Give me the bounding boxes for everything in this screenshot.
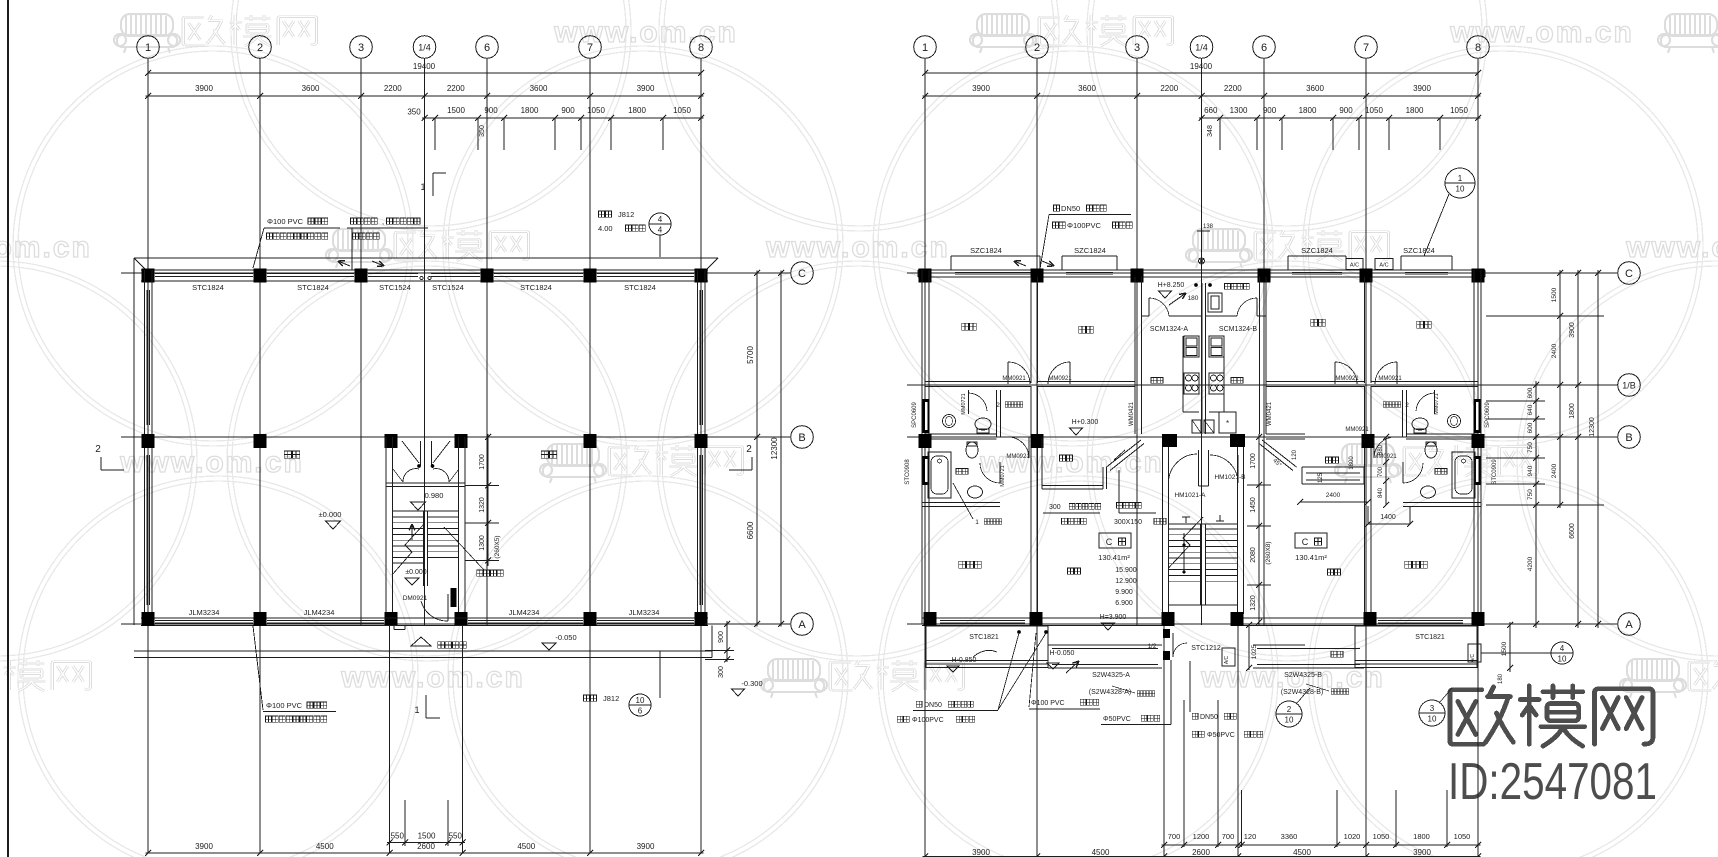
svg-text:S2W4325-A: S2W4325-A	[1092, 672, 1130, 679]
left plan section mark 1 (top)	[432, 173, 434, 196]
left plan grid line 8	[700, 58, 702, 853]
right plan kitchen sink B	[1209, 336, 1224, 357]
right plan living label 客厅 (right)	[1328, 569, 1334, 575]
svg-text:±0.000: ±0.000	[405, 569, 426, 576]
grid bubble 6 (left)	[476, 36, 499, 59]
right plan bath door MM0721 (left)	[968, 390, 970, 414]
svg-text:2: 2	[1287, 705, 1292, 714]
svg-text:3600: 3600	[1306, 84, 1324, 93]
svg-text:S2W4325-B: S2W4325-B	[1284, 672, 1322, 679]
right plan top wall windows	[955, 271, 1036, 273]
svg-text:3600: 3600	[302, 84, 320, 93]
svg-text:SZC1824: SZC1824	[970, 246, 1002, 255]
svg-text:1500: 1500	[447, 106, 465, 115]
svg-text:5700: 5700	[746, 346, 755, 364]
column grid2-B	[254, 434, 267, 448]
right plan kitchen room labels	[1151, 378, 1157, 384]
svg-text:(260X5): (260X5)	[494, 535, 501, 558]
svg-text:C: C	[1106, 537, 1113, 547]
grid bubble 1/4 (right)	[1190, 36, 1213, 59]
right plan balcony window STC1821 (left)	[940, 620, 1025, 622]
left plan grid line 6	[486, 58, 488, 625]
right plan bedroom doors MM0921 at 1/B	[1007, 362, 1009, 384]
right plan appliance boxes	[1192, 420, 1201, 433]
right plan bedroom divider wall grid7	[1364, 277, 1366, 383]
svg-text:125: 125	[1318, 472, 1324, 483]
right plan stair extension lines	[1163, 625, 1165, 856]
right plan dimension row 3900/3600/2200/2200/3600/3900	[923, 95, 1481, 97]
right plan stair flight	[1169, 523, 1238, 525]
svg-text:www.om.cn: www.om.cn	[979, 446, 1164, 479]
right plan detail bubble 1/10 (top)	[1445, 168, 1475, 198]
svg-text:STC1524: STC1524	[432, 283, 464, 292]
right plan dim 1025	[1248, 625, 1250, 670]
left plan grid line 7	[589, 58, 591, 853]
right plan master bath (right unit)	[1452, 452, 1475, 498]
svg-text:Φ50PVC: Φ50PVC	[1103, 716, 1131, 723]
right plan master bath toilet (left)	[966, 442, 978, 458]
grid bubble B (right)	[1618, 426, 1641, 449]
svg-text:3900: 3900	[637, 842, 655, 851]
right plan dining label 餐厅 (right)	[1326, 457, 1332, 463]
svg-text:15.900: 15.900	[1115, 567, 1137, 574]
svg-text:JLM4234: JLM4234	[304, 608, 335, 617]
svg-text:MM0921: MM0921	[1048, 376, 1072, 382]
svg-text:1320: 1320	[1250, 595, 1257, 611]
column stairL-B	[385, 434, 398, 448]
svg-text:6: 6	[638, 707, 643, 716]
right plan grid line 1/4	[1201, 58, 1203, 625]
svg-text:700: 700	[1168, 832, 1181, 841]
right plan grid line B	[907, 436, 1618, 438]
svg-text:2400: 2400	[1551, 463, 1558, 478]
right plan bedroom divider wall grid2	[1030, 277, 1032, 383]
right plan living label 客厅 (left)	[1068, 568, 1074, 574]
svg-text:A/C: A/C	[1350, 263, 1359, 269]
svg-text:8: 8	[1475, 42, 1481, 54]
right plan bottom dimension row 3900/4500/2600/4500/3900	[923, 856, 1481, 857]
svg-text:2: 2	[257, 42, 263, 54]
right plan label 生活阳台	[1225, 284, 1231, 290]
svg-text:1/4: 1/4	[418, 43, 431, 53]
svg-text:,: ,	[382, 217, 384, 226]
svg-text:B: B	[1625, 432, 1632, 444]
right plan overall dimension 19400	[925, 72, 1478, 74]
left plan note 西南J812 with bubble 4/4 (top)	[599, 211, 605, 217]
svg-text:SZC1824: SZC1824	[1074, 246, 1106, 255]
svg-text:1800: 1800	[1299, 106, 1317, 115]
right plan south wall	[922, 617, 1163, 619]
svg-text:6600: 6600	[746, 521, 755, 539]
svg-text:3900: 3900	[1413, 84, 1431, 93]
svg-text:www.om.cn: www.om.cn	[765, 231, 950, 264]
svg-text:(260X8): (260X8)	[1265, 541, 1272, 564]
right plan A/C box (middle)	[1222, 648, 1235, 666]
svg-text:A/C: A/C	[1224, 655, 1230, 664]
right plan bottom dimension row 700/1200/700/120/3360/1020/1050/1800/1050	[1162, 844, 1481, 846]
right plan kitchen counters	[1182, 336, 1184, 412]
right plan hall door arc (right unit)	[1373, 437, 1375, 458]
svg-text:2200: 2200	[1224, 84, 1242, 93]
svg-text:SCM1324-B: SCM1324-B	[1219, 326, 1257, 333]
right plan living balcony (left unit)	[1048, 644, 1162, 646]
column grid1-B	[142, 434, 155, 448]
svg-text:2400: 2400	[1551, 343, 1558, 358]
svg-text:4500: 4500	[517, 842, 535, 851]
column stairR-A	[455, 612, 468, 626]
svg-text:900: 900	[1339, 106, 1353, 115]
column stairL-A (right)	[1162, 612, 1175, 626]
right plan C型 box (right unit)	[1295, 533, 1327, 548]
svg-text:0.980: 0.980	[425, 491, 444, 500]
room label 卧室 (bed3)	[1311, 319, 1318, 326]
left plan entrance porch	[134, 650, 712, 652]
svg-text:1300: 1300	[1230, 106, 1248, 115]
column grid2-A (right)	[1030, 612, 1043, 626]
right plan stair entry doors HM1021	[1198, 450, 1200, 486]
column grid2-C	[254, 269, 267, 283]
right plan wall at grid 1/B	[925, 381, 1031, 383]
right plan balcony (right unit master)	[1355, 625, 1477, 627]
right plan A/C platforms (top)	[1346, 259, 1363, 270]
svg-text:2400: 2400	[1326, 492, 1341, 499]
left plan stair wall extension lines	[389, 625, 391, 853]
right plan detail bubble 4/10	[1551, 642, 1573, 664]
svg-text:3: 3	[1430, 704, 1435, 713]
svg-text:600: 600	[1527, 387, 1534, 398]
right plan stair note 砼制踏步	[1117, 503, 1123, 509]
grid bubble 7 (left)	[579, 36, 602, 59]
right plan grid line C	[907, 272, 1618, 274]
svg-text:H+0.300: H+0.300	[1072, 419, 1099, 426]
left plan stair note 砼制踏步	[477, 570, 483, 576]
svg-text:12.900: 12.900	[1115, 578, 1137, 585]
left plan west exterior wall	[144, 270, 146, 624]
room label 商铺 (east shop)	[541, 451, 548, 458]
column grid7-B	[584, 434, 597, 448]
right plan stair dimension chain	[1258, 434, 1260, 625]
right plan right-side extension lines	[1486, 272, 1604, 274]
svg-text:640: 640	[1527, 404, 1534, 415]
svg-text:3900: 3900	[195, 84, 213, 93]
svg-text:1050: 1050	[1373, 832, 1390, 841]
left plan section mark 1 (bottom)	[425, 695, 427, 718]
svg-text:STC0908: STC0908	[905, 459, 911, 485]
svg-text:8: 8	[698, 42, 704, 54]
svg-text:SZC1824: SZC1824	[1301, 246, 1333, 255]
grid bubble A (left)	[791, 613, 814, 636]
grid bubble B (left)	[791, 426, 814, 449]
svg-text:3900: 3900	[1569, 322, 1576, 338]
svg-text:4500: 4500	[316, 842, 334, 851]
svg-text:SPC0609: SPC0609	[1485, 401, 1491, 427]
svg-text:Φ100 PVC: Φ100 PVC	[267, 217, 304, 226]
svg-text:MM0921: MM0921	[1006, 454, 1030, 460]
svg-text:Φ100 PVC: Φ100 PVC	[1031, 700, 1065, 707]
grid bubble C (left)	[791, 262, 814, 285]
svg-text:180: 180	[1188, 295, 1199, 302]
svg-text:840: 840	[1378, 487, 1384, 498]
svg-text:900: 900	[484, 106, 498, 115]
svg-text:1700: 1700	[479, 454, 486, 470]
right plan master bath label 主卫 (left)	[956, 469, 962, 475]
left plan overall dimension 19400	[148, 72, 701, 74]
svg-text:2080: 2080	[1250, 547, 1257, 563]
svg-text:2200: 2200	[384, 84, 402, 93]
right plan kitchen middle divider	[1201, 283, 1203, 434]
left plan porch dimension 900/300	[705, 623, 734, 625]
right plan 2# bath toilet (left)	[975, 418, 991, 430]
svg-text:7: 7	[1363, 42, 1369, 54]
right plan master bath tub (left)	[928, 452, 951, 498]
svg-text:12300: 12300	[770, 437, 779, 460]
right plan stair shaft walls	[1162, 447, 1164, 614]
grid bubble 1/B (right)	[1618, 374, 1641, 397]
left plan grid line A	[121, 623, 791, 625]
svg-text:H+8.250: H+8.250	[1158, 282, 1185, 289]
left plan stair width dimension 550/1500/550	[404, 800, 406, 846]
right plan right dim chain inner	[1535, 381, 1537, 628]
right plan detail bubble 3/10	[1419, 700, 1445, 726]
svg-text:2: 2	[996, 402, 1000, 409]
svg-text:300X150: 300X150	[1114, 519, 1142, 526]
svg-text:2: 2	[746, 444, 752, 455]
svg-text:A: A	[798, 619, 806, 631]
right plan C型 box (left unit)	[1099, 533, 1131, 548]
left plan right-side dimension 5700/6600	[712, 272, 790, 274]
svg-text:6: 6	[484, 42, 490, 54]
right plan kitchen east wall grid6	[1259, 277, 1261, 434]
svg-text:3: 3	[1134, 42, 1140, 54]
svg-text:1500: 1500	[1501, 641, 1508, 656]
svg-text:1700: 1700	[1250, 453, 1257, 469]
svg-text:DN50: DN50	[1200, 714, 1218, 721]
column grid1-A (right)	[924, 612, 937, 626]
svg-text:1: 1	[922, 42, 928, 54]
right plan grid line 8	[1477, 58, 1479, 856]
right plan stair entrance door	[1163, 629, 1170, 638]
svg-text:(S2W4328-B): (S2W4328-B)	[1281, 689, 1323, 696]
right plan dining railing (left unit)	[1042, 485, 1103, 487]
left plan roof eave outline	[134, 257, 718, 259]
svg-text:880: 880	[1378, 444, 1384, 455]
svg-text:1050: 1050	[1450, 106, 1468, 115]
left plan south wall windows JLM	[155, 620, 253, 622]
grid bubble 3 (right)	[1126, 36, 1149, 59]
svg-text:MM0921: MM0921	[1345, 427, 1369, 433]
right plan grid line 2	[1036, 58, 1038, 856]
right plan master bath basin (left)	[968, 486, 983, 498]
svg-text:4.00: 4.00	[598, 224, 613, 233]
svg-text:C: C	[1302, 537, 1309, 547]
svg-text:3900: 3900	[637, 84, 655, 93]
svg-text:Φ100 PVC: Φ100 PVC	[266, 701, 303, 710]
svg-text:1020: 1020	[1344, 832, 1361, 841]
svg-text:SPC0609: SPC0609	[912, 401, 918, 427]
grid bubble A (right)	[1618, 613, 1641, 636]
right plan west windows SPC0609/STC0908	[923, 399, 930, 433]
svg-text:1800: 1800	[1413, 832, 1430, 841]
svg-text:130.41m²: 130.41m²	[1098, 553, 1130, 562]
svg-text:2200: 2200	[1160, 84, 1178, 93]
column grid3-C	[355, 269, 368, 283]
svg-text:550: 550	[449, 832, 463, 841]
right plan note 接至屋面 (left)	[1137, 691, 1142, 696]
svg-text:SZC1824: SZC1824	[1403, 246, 1435, 255]
svg-text:MM0921: MM0921	[1335, 376, 1359, 382]
right plan bath walls (right unit)	[1402, 390, 1404, 437]
svg-text:H-0.050: H-0.050	[1050, 650, 1075, 657]
svg-text:JLM3234: JLM3234	[629, 608, 660, 617]
svg-text:1800: 1800	[1406, 106, 1424, 115]
right plan west exterior wall	[921, 270, 923, 624]
right plan stove A	[1184, 373, 1199, 394]
svg-text:10: 10	[1285, 716, 1294, 725]
column grid1-C	[142, 269, 155, 283]
column stairR-B	[455, 434, 468, 448]
svg-text:JLM4234: JLM4234	[509, 608, 540, 617]
right plan right dim chain total	[1597, 270, 1599, 628]
svg-text:STC1824: STC1824	[297, 283, 329, 292]
left plan grid line 1	[147, 58, 149, 853]
left plan stair shaft walls	[385, 437, 387, 624]
left plan bottom dimension 3900/4500/2600/4500/3900	[146, 852, 704, 854]
right plan grid line A	[907, 623, 1618, 625]
svg-text:WM0421: WM0421	[1129, 401, 1135, 426]
svg-text:WM0421: WM0421	[1267, 401, 1273, 426]
svg-text:1: 1	[414, 705, 419, 715]
svg-text:180: 180	[1498, 673, 1504, 684]
svg-text:6600: 6600	[1569, 523, 1576, 539]
svg-text:MM0721: MM0721	[961, 393, 967, 414]
grid bubble C (right)	[1618, 262, 1641, 285]
svg-text:2600: 2600	[417, 842, 435, 851]
right plan east exterior wall	[1473, 270, 1475, 624]
left plan note 西南J812 with bubble 10/6 (bottom)	[584, 695, 590, 701]
right plan kitchen west wall grid3	[1134, 277, 1136, 434]
svg-text:*: *	[1226, 419, 1229, 428]
svg-text:Φ100PVC: Φ100PVC	[1067, 221, 1102, 230]
svg-text:STC1824: STC1824	[192, 283, 224, 292]
svg-text:3900: 3900	[972, 848, 990, 857]
svg-text:1: 1	[145, 42, 151, 54]
right plan hall door arc (left unit)	[1028, 437, 1030, 458]
left plan grid line 2	[259, 58, 261, 853]
right plan balcony (left unit master)	[926, 625, 1048, 627]
left plan stair vestibule doors	[420, 441, 422, 466]
left plan entrance arrow 住宅入口	[411, 637, 431, 646]
right plan water heater	[1208, 293, 1222, 312]
left plan grid line C	[121, 272, 791, 274]
svg-text:1500: 1500	[1551, 287, 1558, 302]
svg-text:1200: 1200	[1193, 832, 1210, 841]
svg-text:STC1524: STC1524	[379, 283, 411, 292]
right plan stair door lintels	[1162, 434, 1177, 447]
right plan 2# bath basin (left)	[943, 415, 956, 428]
grid bubble 1 (left)	[137, 36, 160, 59]
left plan stair vestibule lower wall	[386, 482, 465, 484]
right plan leader note DN50 (stair)	[1192, 713, 1198, 719]
svg-text:A/C: A/C	[1470, 653, 1476, 662]
svg-text:1: 1	[975, 519, 979, 526]
svg-text:300: 300	[718, 666, 725, 678]
svg-text:6.900: 6.900	[1115, 600, 1133, 607]
svg-text:MM0921: MM0921	[1002, 376, 1026, 382]
svg-text:1050: 1050	[673, 106, 691, 115]
right plan dim 1500/180 (right edge)	[1509, 622, 1511, 672]
brand logo 欧模网 (dark)	[1450, 686, 1653, 746]
left plan top exterior wall	[141, 269, 708, 271]
svg-text:4: 4	[658, 226, 663, 235]
svg-text:1050: 1050	[587, 106, 605, 115]
svg-text:DM0921: DM0921	[403, 595, 428, 602]
svg-text:STC1824: STC1824	[520, 283, 552, 292]
room label 商铺 (west shop)	[284, 451, 291, 458]
left plan top wall windows STC	[155, 273, 253, 275]
svg-text:DN50: DN50	[924, 702, 942, 709]
svg-text:B: B	[798, 432, 805, 444]
svg-text:HM1021-A: HM1021-A	[1174, 492, 1206, 499]
right plan dining label 餐厅 (left)	[1060, 455, 1066, 461]
left plan south exterior wall	[141, 617, 708, 619]
svg-text:4500: 4500	[1092, 848, 1110, 857]
svg-text:1800: 1800	[1569, 403, 1576, 419]
svg-text:2: 2	[95, 444, 101, 455]
left plan east exterior wall	[697, 270, 699, 624]
svg-text:A/C: A/C	[1379, 263, 1388, 269]
svg-text:-0.300: -0.300	[741, 679, 762, 688]
svg-text:STC0909: STC0909	[1492, 459, 1498, 485]
svg-text:1025: 1025	[1251, 644, 1258, 659]
svg-text:STC1824: STC1824	[624, 283, 656, 292]
column grid8-A	[695, 612, 708, 626]
right plan dimension row 660/1300/900/1800/900/1050/1800/1050	[1199, 117, 1481, 119]
left plan dimension row 350/1500/900/1800/900/1050/1800/1050	[422, 117, 704, 119]
svg-text:2600: 2600	[1192, 848, 1210, 857]
svg-text:4500: 4500	[1293, 848, 1311, 857]
right plan roof/bay outline	[951, 255, 1040, 257]
svg-text:19400: 19400	[1190, 62, 1213, 71]
svg-text:10: 10	[1456, 185, 1465, 194]
svg-text:MM0921: MM0921	[1373, 454, 1397, 460]
svg-text:600: 600	[1527, 422, 1534, 433]
svg-text:4: 4	[1560, 644, 1565, 653]
svg-text:J812: J812	[618, 210, 634, 219]
svg-text:1050: 1050	[1454, 832, 1471, 841]
svg-text:1400: 1400	[1380, 514, 1396, 521]
svg-text:120: 120	[1292, 449, 1298, 460]
column grid7-C (right)	[1360, 269, 1373, 283]
right plan balcony wall 生活阳台	[1142, 315, 1150, 317]
svg-text:3900: 3900	[1413, 848, 1431, 857]
svg-text:DN50: DN50	[1061, 204, 1080, 213]
right plan stove B	[1209, 373, 1224, 394]
right plan grid line 7	[1365, 58, 1367, 856]
svg-text:10: 10	[636, 696, 645, 705]
column grid7-A	[584, 612, 597, 626]
svg-text:ID:2547081: ID:2547081	[1448, 753, 1657, 811]
left plan stair flight	[393, 510, 459, 512]
svg-text:3: 3	[358, 42, 364, 54]
column grid8-B	[695, 434, 708, 448]
svg-text:1: 1	[1458, 174, 1463, 183]
right plan east windows	[1474, 399, 1481, 433]
svg-text:1450: 1450	[1250, 497, 1257, 513]
svg-text:300: 300	[1049, 504, 1061, 511]
column grid1-A	[142, 612, 155, 626]
svg-text:10: 10	[1558, 655, 1567, 664]
column grid7-A (right)	[1364, 612, 1377, 626]
